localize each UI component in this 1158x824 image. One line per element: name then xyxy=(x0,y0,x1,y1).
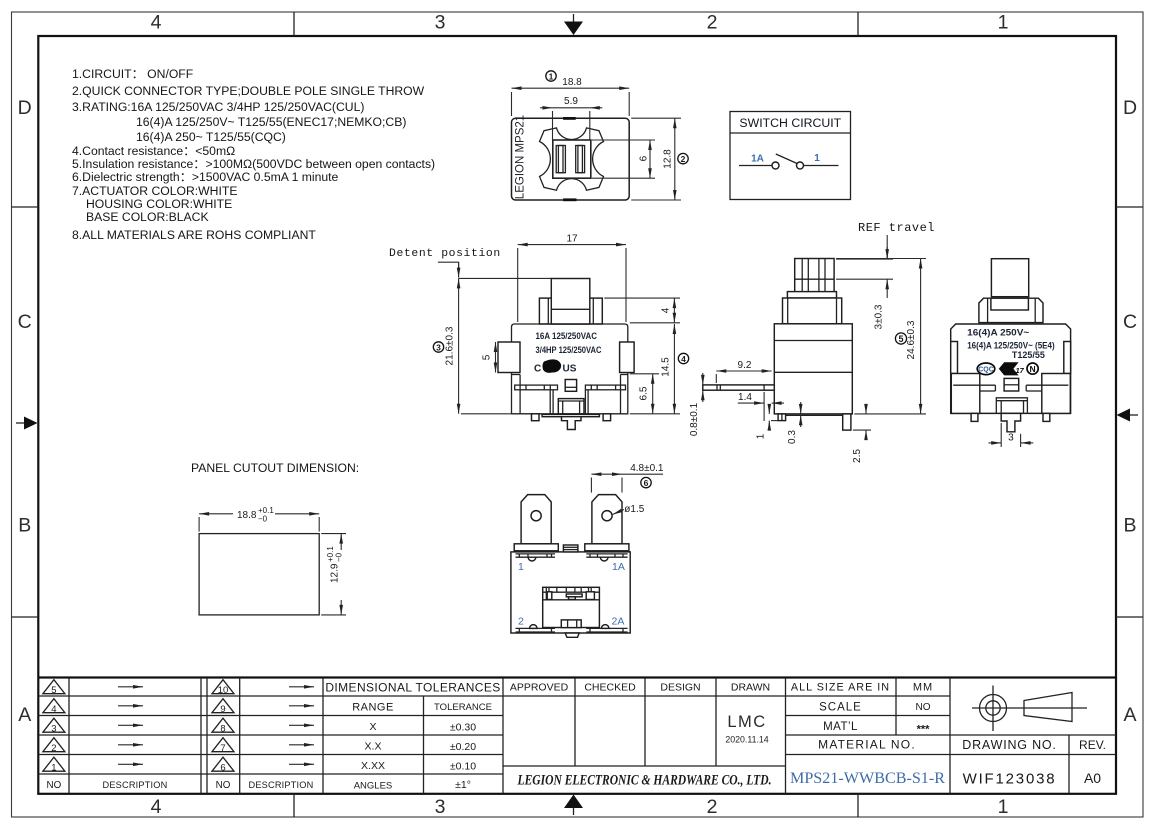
svg-text:N: N xyxy=(1030,364,1036,374)
svg-text:8.ALL MATERIALS ARE ROHS COMPL: 8.ALL MATERIALS ARE ROHS COMPLIANT xyxy=(72,228,316,242)
svg-text:7.ACTUATOR COLOR:WHITE: 7.ACTUATOR COLOR:WHITE xyxy=(72,184,237,198)
svg-text:6.Dielectric strength：>1500VAC: 6.Dielectric strength：>1500VAC 0.5mA 1 m… xyxy=(72,170,339,184)
svg-text:RANGE: RANGE xyxy=(352,702,394,714)
svg-text:3±0.3: 3±0.3 xyxy=(874,304,885,329)
svg-text:DRAWING NO.: DRAWING NO. xyxy=(962,738,1056,752)
svg-text:NO: NO xyxy=(47,780,62,791)
svg-text:2: 2 xyxy=(51,743,56,754)
svg-text:1.4: 1.4 xyxy=(738,392,752,403)
svg-text:−0: −0 xyxy=(335,552,344,562)
svg-text:C: C xyxy=(534,364,541,375)
svg-text:1: 1 xyxy=(998,12,1009,34)
svg-text:8: 8 xyxy=(220,724,225,735)
svg-text:10: 10 xyxy=(218,685,229,696)
svg-text:MATERIAL NO.: MATERIAL NO. xyxy=(818,738,916,752)
svg-text:17: 17 xyxy=(1016,366,1025,375)
svg-text:A0: A0 xyxy=(1084,770,1101,786)
svg-text:X: X xyxy=(369,721,376,733)
svg-text:5: 5 xyxy=(482,354,493,360)
svg-text:±0.30: ±0.30 xyxy=(450,722,476,734)
svg-text:A: A xyxy=(1123,704,1136,726)
svg-text:3: 3 xyxy=(435,796,446,818)
svg-text:±0.10: ±0.10 xyxy=(450,761,476,773)
svg-text:SWITCH CIRCUIT: SWITCH CIRCUIT xyxy=(739,116,841,130)
svg-text:B: B xyxy=(18,515,31,537)
svg-text:0.8±0.1: 0.8±0.1 xyxy=(689,402,700,436)
svg-text:B: B xyxy=(1123,515,1136,537)
svg-text:DESIGN: DESIGN xyxy=(660,682,700,694)
svg-text:16(4)A 250~ T125/55(CQC): 16(4)A 250~ T125/55(CQC) xyxy=(136,130,286,144)
svg-text:5.9: 5.9 xyxy=(564,96,578,107)
svg-text:3: 3 xyxy=(435,12,446,34)
svg-text:A: A xyxy=(18,704,31,726)
svg-text:REF travel: REF travel xyxy=(858,221,935,235)
svg-text:LEGION MPS21: LEGION MPS21 xyxy=(515,115,527,199)
svg-text:6.5: 6.5 xyxy=(639,386,650,400)
svg-text:2: 2 xyxy=(518,616,524,628)
svg-text:1A: 1A xyxy=(751,154,764,165)
svg-text:12.9: 12.9 xyxy=(330,563,341,583)
svg-text:0.3: 0.3 xyxy=(787,430,798,444)
svg-text:5: 5 xyxy=(51,685,56,696)
svg-text:Detent position: Detent position xyxy=(389,248,501,260)
svg-text:WIF123038: WIF123038 xyxy=(963,771,1057,788)
svg-text:4: 4 xyxy=(51,704,56,715)
svg-text:16(4)A 125/250V~ T125/55(ENEC1: 16(4)A 125/250V~ T125/55(ENEC17;NEMKO;CB… xyxy=(136,115,406,129)
svg-text:±0.20: ±0.20 xyxy=(450,741,476,753)
svg-text:APPROVED: APPROVED xyxy=(510,682,569,694)
svg-text:16(4)A 250V~: 16(4)A 250V~ xyxy=(967,328,1029,339)
svg-text:6: 6 xyxy=(644,478,649,488)
svg-text:3: 3 xyxy=(51,724,56,735)
svg-text:12.8: 12.8 xyxy=(663,149,674,169)
svg-text:24.6±0.3: 24.6±0.3 xyxy=(906,320,917,359)
svg-text:MPS21-WWBCB-S1-R: MPS21-WWBCB-S1-R xyxy=(790,770,945,787)
svg-text:5.Insulation resistance：>100MΩ: 5.Insulation resistance：>100MΩ(500VDC be… xyxy=(72,157,435,171)
svg-text:1: 1 xyxy=(518,561,524,573)
svg-text:21.6±0.3: 21.6±0.3 xyxy=(445,326,456,365)
svg-text:2: 2 xyxy=(707,796,718,818)
svg-text:1.CIRCUIT： ON/OFF: 1.CIRCUIT： ON/OFF xyxy=(72,67,193,81)
svg-text:1: 1 xyxy=(549,72,554,82)
svg-text:MM: MM xyxy=(913,682,933,694)
svg-text:MAT’L: MAT’L xyxy=(823,721,858,733)
svg-text:US: US xyxy=(563,364,577,375)
svg-text:2020.11.14: 2020.11.14 xyxy=(725,735,768,745)
svg-text:4: 4 xyxy=(151,12,162,34)
svg-text:TOLERANCE: TOLERANCE xyxy=(434,702,492,713)
svg-text:D: D xyxy=(1123,97,1137,119)
svg-text:HOUSING COLOR:WHITE: HOUSING COLOR:WHITE xyxy=(86,197,232,211)
svg-text:PANEL CUTOUT DIMENSION:: PANEL CUTOUT DIMENSION: xyxy=(191,461,359,475)
svg-text:SCALE: SCALE xyxy=(819,702,862,714)
svg-text:3: 3 xyxy=(436,343,441,353)
svg-text:2.QUICK CONNECTOR TYPE;DOUBLE: 2.QUICK CONNECTOR TYPE;DOUBLE POLE SINGL… xyxy=(72,84,425,98)
svg-text:DIMENSIONAL TOLERANCES: DIMENSIONAL TOLERANCES xyxy=(325,681,500,695)
svg-text:9: 9 xyxy=(220,704,225,715)
svg-text:CHECKED: CHECKED xyxy=(584,682,636,694)
svg-text:ANGLES: ANGLES xyxy=(354,781,393,792)
svg-text:REV.: REV. xyxy=(1079,738,1106,752)
svg-text:D: D xyxy=(18,97,32,119)
svg-text:LEGION ELECTRONIC & HARDWARE C: LEGION ELECTRONIC & HARDWARE CO., LTD. xyxy=(517,773,772,789)
svg-text:LMC: LMC xyxy=(727,713,766,731)
svg-text:9.2: 9.2 xyxy=(738,360,752,371)
svg-text:3/4HP 125/250VAC: 3/4HP 125/250VAC xyxy=(536,345,602,356)
svg-text:7: 7 xyxy=(220,743,225,754)
svg-text:2A: 2A xyxy=(612,616,625,628)
svg-text:NO: NO xyxy=(216,780,231,791)
svg-text:−0: −0 xyxy=(258,515,268,524)
svg-text:18.8: 18.8 xyxy=(562,77,582,88)
svg-text:18.8: 18.8 xyxy=(237,510,257,521)
svg-text:2: 2 xyxy=(681,154,686,164)
svg-text:4.8±0.1: 4.8±0.1 xyxy=(630,463,664,474)
svg-text:6: 6 xyxy=(220,763,225,774)
svg-text:ø1.5: ø1.5 xyxy=(624,504,644,515)
svg-text:1: 1 xyxy=(814,153,820,164)
svg-text:4: 4 xyxy=(661,307,672,313)
svg-text:***: *** xyxy=(917,724,931,736)
svg-text:4: 4 xyxy=(681,354,686,364)
svg-text:5: 5 xyxy=(898,334,903,344)
svg-text:6: 6 xyxy=(639,155,650,161)
svg-text:4: 4 xyxy=(151,796,162,818)
svg-text:DESCRIPTION: DESCRIPTION xyxy=(103,780,168,790)
svg-text:DRAWN: DRAWN xyxy=(731,682,770,694)
svg-text:4.Contact resistance：<50mΩ: 4.Contact resistance：<50mΩ xyxy=(72,144,235,158)
svg-text:DESCRIPTION: DESCRIPTION xyxy=(249,780,314,790)
svg-text:C: C xyxy=(18,311,32,333)
svg-text:X.X: X.X xyxy=(365,741,382,753)
svg-text:BASE COLOR:BLACK: BASE COLOR:BLACK xyxy=(86,210,209,224)
svg-text:3: 3 xyxy=(1008,433,1014,444)
svg-text:16A 125/250VAC: 16A 125/250VAC xyxy=(536,331,598,342)
svg-text:X.XX: X.XX xyxy=(361,760,385,772)
svg-text:3.RATING:16A 125/250VAC 3/4HP: 3.RATING:16A 125/250VAC 3/4HP 125/250VAC… xyxy=(72,100,364,114)
svg-text:1A: 1A xyxy=(612,561,625,573)
svg-text:T125/55: T125/55 xyxy=(1012,350,1046,361)
svg-text:1: 1 xyxy=(51,763,56,774)
svg-text:C: C xyxy=(1123,311,1137,333)
svg-text:14.5: 14.5 xyxy=(660,357,671,377)
svg-text:1: 1 xyxy=(755,433,766,439)
svg-text:±1°: ±1° xyxy=(455,779,471,791)
svg-text:CQC: CQC xyxy=(978,367,994,374)
svg-text:2.5: 2.5 xyxy=(852,449,863,463)
svg-text:ALL SIZE ARE IN: ALL SIZE ARE IN xyxy=(791,682,890,694)
svg-text:2: 2 xyxy=(707,12,718,34)
svg-text:1: 1 xyxy=(998,796,1009,818)
svg-text:17: 17 xyxy=(566,234,578,245)
svg-text:NO: NO xyxy=(916,702,931,713)
